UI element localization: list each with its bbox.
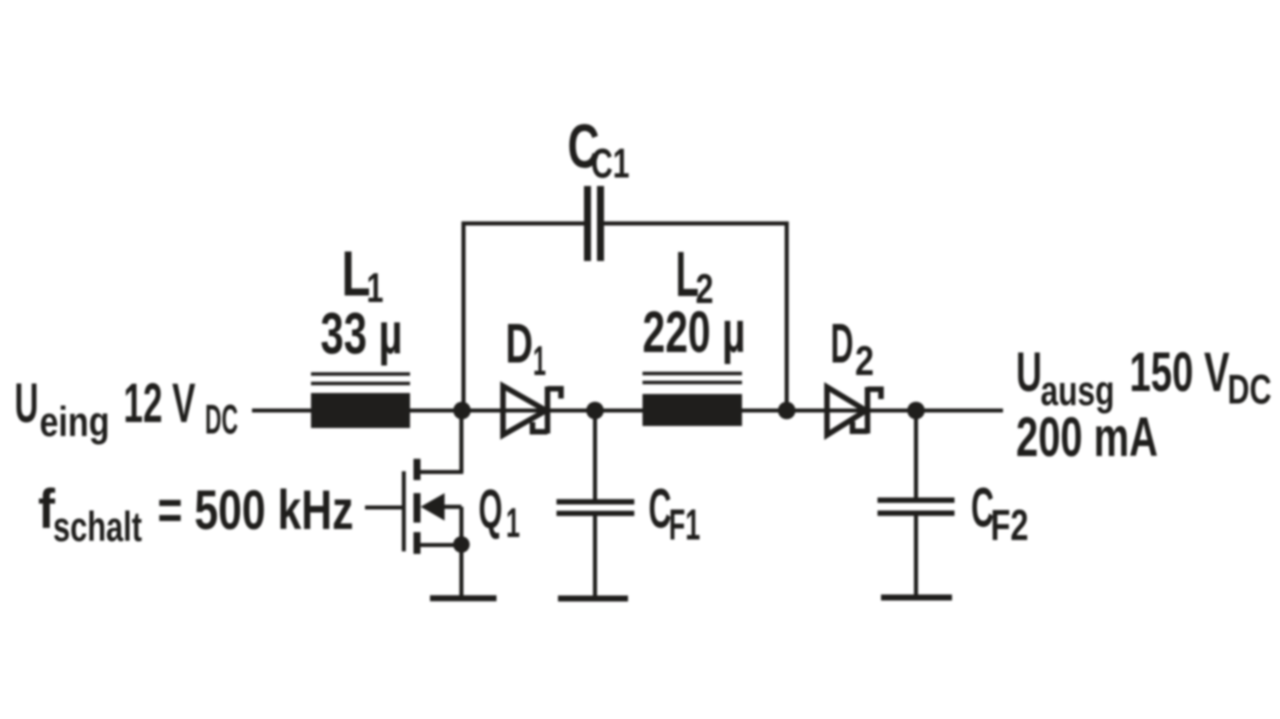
drain stub [419, 470, 463, 474]
svg-text:= 500 kHz: = 500 kHz [158, 478, 354, 541]
label D2 [831, 312, 875, 385]
wire top rail right [604, 221, 789, 225]
wire main rail [252, 408, 1003, 412]
value L1 33 µ [321, 302, 403, 367]
transistor Q1 (n-channel MOSFET) [365, 411, 470, 597]
node B junction dot [586, 402, 604, 420]
svg-text:C1: C1 [591, 140, 630, 187]
label CC1 [568, 113, 630, 187]
node A junction dot [453, 402, 471, 420]
body arrow [421, 493, 445, 520]
inductor L1 [311, 374, 410, 428]
node S junction dot [453, 536, 470, 553]
capacitor CF2 [878, 500, 955, 513]
svg-text:U: U [15, 371, 39, 434]
svg-text:eing: eing [40, 398, 110, 445]
svg-text:2: 2 [855, 337, 874, 384]
wire node D down to CF2 [914, 411, 918, 501]
svg-text:150 V: 150 V [1130, 340, 1230, 403]
svg-text:F1: F1 [669, 501, 701, 550]
svg-text:DC: DC [1228, 366, 1272, 413]
value 200 mA [1016, 405, 1158, 468]
ground under Q1 [430, 595, 497, 601]
diode D2 (schottky) [827, 387, 881, 435]
wire CF1 down to ground [593, 513, 597, 596]
ground under CF1 [558, 596, 628, 602]
node C junction dot [778, 402, 796, 420]
wire node B down to CF1 [593, 411, 597, 502]
source stub [419, 543, 461, 547]
label fschalt = 500 kHz [38, 477, 354, 550]
value 150 VDC [1130, 340, 1272, 413]
svg-text:1: 1 [506, 499, 520, 546]
inductor L2 [643, 374, 743, 427]
wire gate lead [365, 505, 404, 509]
svg-text:schalt: schalt [53, 503, 142, 550]
wire top rail left [462, 221, 584, 225]
label Q1 [479, 477, 521, 546]
label CF2 [971, 476, 1029, 551]
svg-text:D: D [831, 312, 854, 375]
wire CF2 down to ground [914, 513, 918, 594]
label L2 [676, 238, 714, 312]
diode D1 (schottky) [503, 386, 561, 435]
value L2 220 µ [643, 300, 746, 365]
node Uausg output net label [1016, 340, 1115, 414]
gate bar [402, 471, 406, 551]
svg-text:U: U [1016, 340, 1042, 403]
wire source down to ground [459, 507, 463, 596]
ground under CF2 [881, 595, 952, 601]
capacitor CC1 [584, 186, 604, 261]
svg-text:12 V: 12 V [124, 371, 196, 434]
svg-text:DC: DC [205, 396, 238, 443]
label CF1 [649, 477, 701, 550]
value 12 VDC [124, 371, 239, 443]
wire node A up to top rail [461, 222, 465, 411]
wire drain up to node A [459, 411, 463, 473]
capacitor CF1 [557, 502, 635, 514]
node D junction dot [907, 402, 925, 420]
channel segments [414, 459, 421, 554]
svg-text:220 µ: 220 µ [643, 300, 746, 365]
body line to source [443, 505, 461, 509]
svg-text:1: 1 [533, 337, 546, 384]
svg-text:200 mA: 200 mA [1016, 405, 1158, 468]
label L1 [342, 238, 384, 312]
svg-text:D: D [506, 312, 534, 375]
label D1 [506, 312, 547, 385]
svg-text:33 µ: 33 µ [321, 302, 403, 367]
svg-text:Q: Q [479, 477, 503, 540]
node Ueing input net label [15, 371, 110, 445]
svg-text:F2: F2 [991, 501, 1029, 550]
wire top rail down to node C [785, 222, 789, 411]
